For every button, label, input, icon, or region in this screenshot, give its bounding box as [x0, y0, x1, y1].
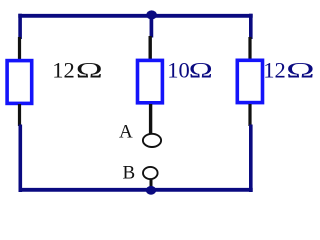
- value label 10ohm (navy): [167, 58, 213, 83]
- wire left branch upper lead (black): [18, 37, 21, 60]
- wire right branch lower (navy): [249, 125, 253, 193]
- wire top bus: [18, 14, 252, 18]
- wire bottom bus: [19, 188, 253, 192]
- terminal B: [143, 167, 158, 179]
- wire left branch lower (navy): [18, 125, 22, 193]
- wire right branch lower lead (black): [248, 104, 251, 126]
- svg-text:12: 12: [263, 58, 286, 83]
- terminal A: [143, 134, 161, 147]
- wire left branch upper (navy): [18, 14, 22, 39]
- svg-text:Ω: Ω: [76, 58, 103, 83]
- svg-text:10: 10: [167, 58, 190, 83]
- svg-text:Ω: Ω: [189, 58, 213, 83]
- value label 12ohm right (navy): [263, 58, 315, 83]
- resistor R3 12ohm: [237, 60, 262, 102]
- wire right branch upper lead (black): [248, 37, 251, 60]
- svg-text:A: A: [119, 122, 133, 143]
- resistor R2 10ohm: [138, 60, 163, 102]
- node junction bottom: [146, 186, 156, 195]
- svg-text:12: 12: [52, 58, 74, 83]
- wire middle branch lower lead (black): [149, 104, 152, 134]
- resistor R1 12ohm: [7, 61, 32, 104]
- value label 12ohm (black): [52, 58, 103, 83]
- wire middle branch upper lead (black): [148, 36, 151, 59]
- node junction top: [146, 10, 157, 19]
- wire right branch upper (navy): [249, 14, 253, 39]
- svg-text:B: B: [123, 163, 136, 184]
- wire terminal B lead (black): [150, 180, 153, 189]
- svg-text:Ω: Ω: [286, 58, 315, 83]
- wire left branch lower lead (black): [18, 104, 21, 126]
- wire middle branch upper (navy): [150, 15, 154, 38]
